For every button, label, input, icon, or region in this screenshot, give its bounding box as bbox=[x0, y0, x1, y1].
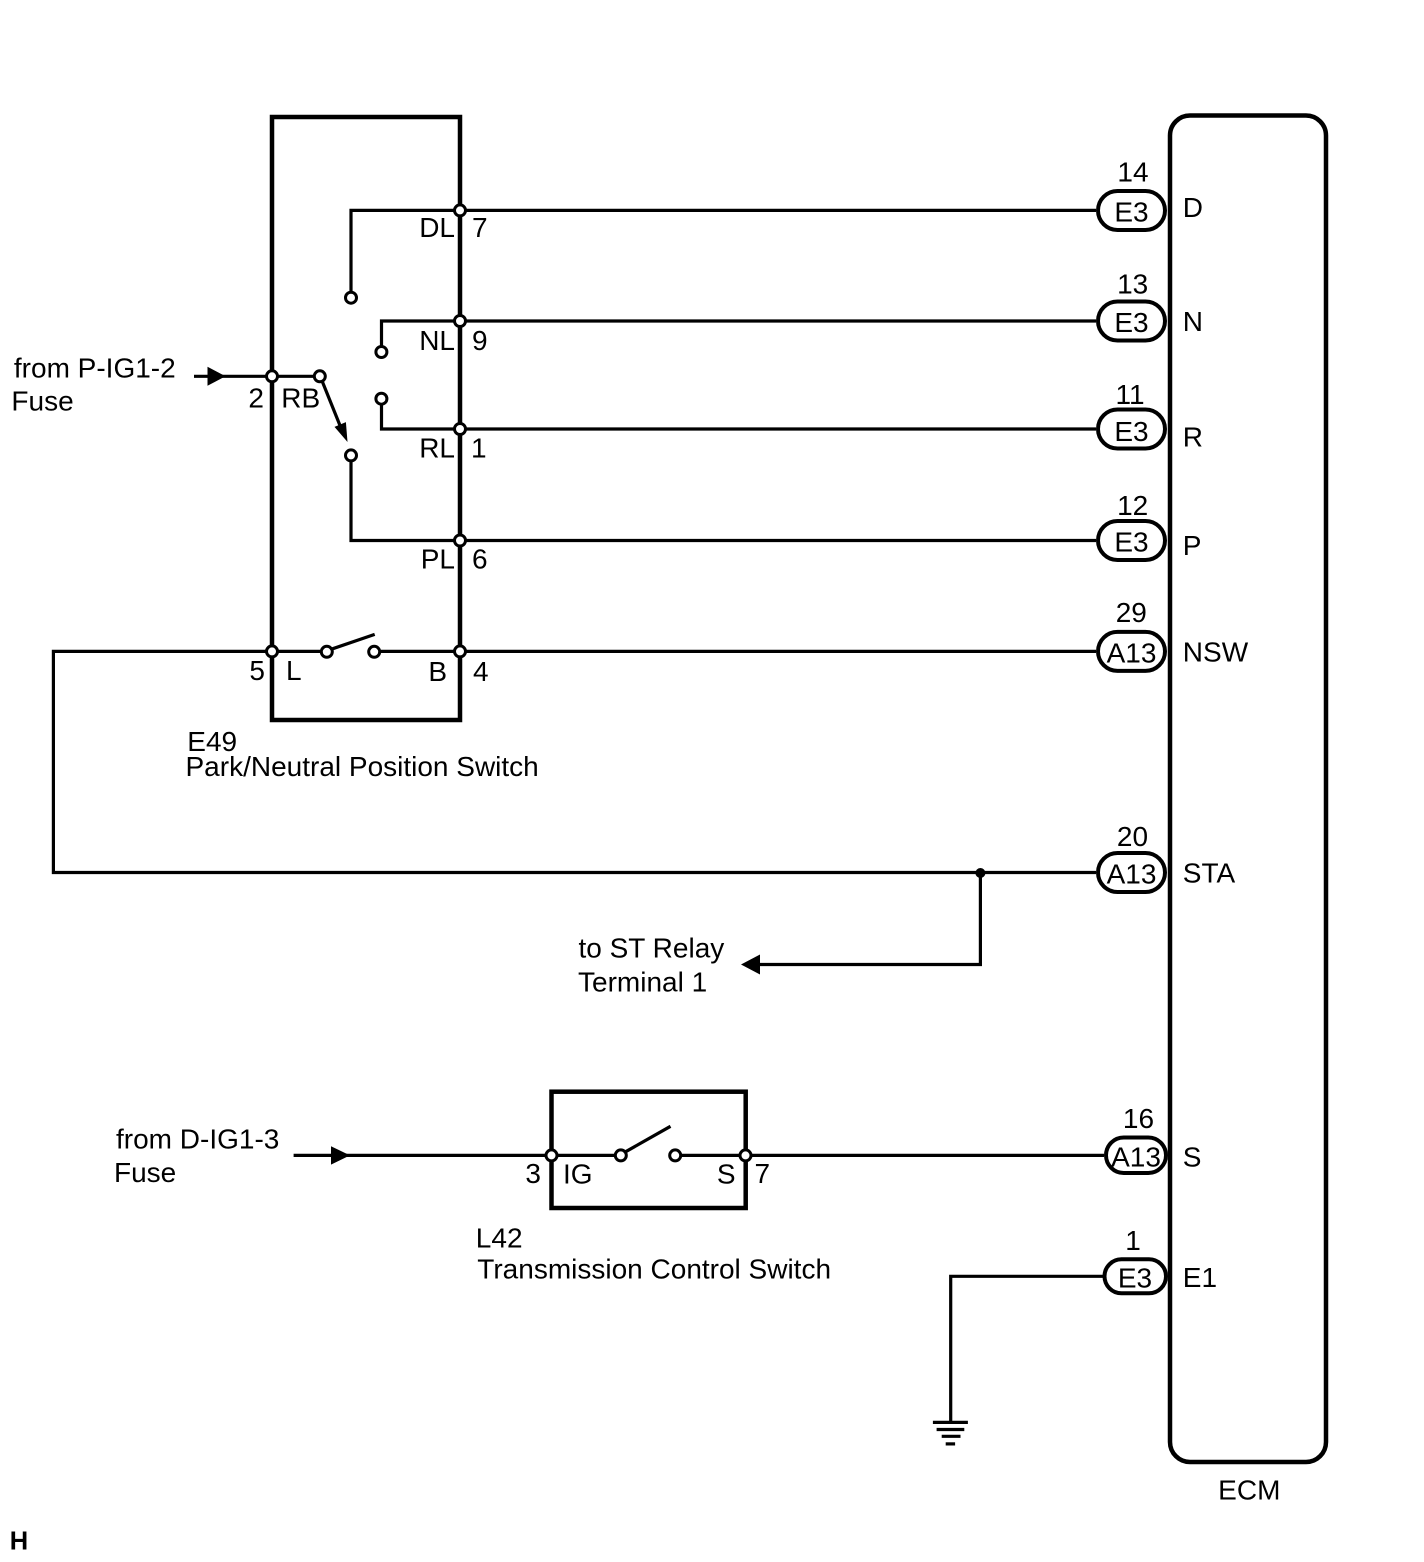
svg-text:Park/Neutral Position Switch: Park/Neutral Position Switch bbox=[186, 751, 539, 782]
wire NSW loop to STA bbox=[53, 651, 1096, 872]
svg-text:16: 16 bbox=[1123, 1103, 1154, 1134]
wire DL to pin 14 bbox=[351, 210, 1096, 291]
svg-text:IG: IG bbox=[563, 1159, 593, 1190]
connector E3 pin 1 bbox=[1105, 1259, 1167, 1293]
svg-text:6: 6 bbox=[472, 544, 488, 575]
svg-text:RL: RL bbox=[419, 433, 455, 464]
arrowhead to ST relay bbox=[741, 955, 760, 975]
svg-text:R: R bbox=[1183, 422, 1203, 453]
contact L bbox=[321, 646, 332, 657]
node DL-7 bbox=[455, 205, 466, 216]
svg-text:N: N bbox=[1183, 306, 1203, 337]
contact NL bbox=[376, 347, 387, 358]
svg-text:Transmission Control Switch: Transmission Control Switch bbox=[477, 1254, 831, 1285]
ECM box bbox=[1170, 116, 1326, 1463]
svg-text:7: 7 bbox=[472, 212, 488, 243]
contact RB common bbox=[314, 371, 325, 382]
svg-text:Terminal 1: Terminal 1 bbox=[578, 966, 707, 997]
ground bbox=[933, 1422, 968, 1444]
connector A13 pin 16 bbox=[1106, 1138, 1166, 1174]
svg-text:B: B bbox=[428, 656, 447, 687]
connector E3 pin 12 bbox=[1098, 521, 1165, 560]
svg-text:L42: L42 bbox=[476, 1223, 523, 1254]
switch L42 box bbox=[552, 1092, 746, 1208]
node terminal 3 bbox=[546, 1150, 557, 1161]
svg-text:E3: E3 bbox=[1114, 527, 1148, 558]
wire RL to pin 11 bbox=[382, 405, 1097, 429]
svg-text:5: 5 bbox=[249, 655, 265, 686]
svg-text:1: 1 bbox=[1125, 1225, 1141, 1256]
svg-text:13: 13 bbox=[1117, 269, 1148, 300]
svg-text:E3: E3 bbox=[1114, 307, 1148, 338]
svg-text:2: 2 bbox=[248, 382, 264, 413]
svg-text:11: 11 bbox=[1115, 379, 1144, 410]
wire to ST relay bbox=[759, 873, 980, 965]
svg-text:from D-IG1-3: from D-IG1-3 bbox=[116, 1124, 279, 1155]
node NL-9 bbox=[455, 316, 466, 327]
switch arm RB bbox=[323, 382, 342, 428]
wire PL to pin 12 bbox=[351, 462, 1096, 541]
svg-text:NL: NL bbox=[419, 325, 455, 356]
svg-text:1: 1 bbox=[471, 433, 487, 464]
node terminal 7 bbox=[740, 1150, 751, 1161]
wire E1 to ground bbox=[951, 1276, 1104, 1423]
arrowhead P-IG1-2 bbox=[208, 367, 226, 386]
contact PL bbox=[346, 450, 357, 461]
node terminal 2 bbox=[267, 371, 278, 382]
svg-text:A13: A13 bbox=[1107, 637, 1157, 668]
switch E49 box bbox=[272, 117, 460, 720]
node PL-6 bbox=[455, 535, 466, 546]
contact RL bbox=[376, 393, 387, 404]
switch arm L-B bbox=[331, 634, 375, 649]
svg-text:7: 7 bbox=[755, 1158, 771, 1189]
svg-text:E3: E3 bbox=[1114, 196, 1148, 227]
svg-text:E3: E3 bbox=[1118, 1262, 1152, 1293]
contact IG bbox=[615, 1150, 626, 1161]
svg-text:3: 3 bbox=[525, 1158, 541, 1189]
node terminal 4 bbox=[455, 646, 466, 657]
svg-text:from P-IG1-2: from P-IG1-2 bbox=[14, 352, 176, 383]
svg-text:Fuse: Fuse bbox=[11, 385, 73, 416]
svg-text:STA: STA bbox=[1183, 858, 1236, 889]
connector E3 pin 14 bbox=[1098, 191, 1165, 230]
wire from D-IG1-3 fuse bbox=[294, 1154, 615, 1157]
svg-text:Fuse: Fuse bbox=[114, 1157, 176, 1188]
connector E3 pin 11 bbox=[1098, 410, 1165, 449]
connector E3 pin 13 bbox=[1098, 302, 1165, 341]
svg-text:L: L bbox=[286, 655, 302, 686]
svg-text:12: 12 bbox=[1117, 490, 1148, 521]
svg-text:E1: E1 bbox=[1183, 1262, 1217, 1293]
svg-text:to ST Relay: to ST Relay bbox=[579, 933, 725, 964]
svg-text:4: 4 bbox=[473, 656, 489, 687]
junction STA branch bbox=[975, 868, 985, 878]
svg-text:9: 9 bbox=[472, 325, 488, 356]
svg-text:A13: A13 bbox=[1111, 1141, 1161, 1172]
switch arm IG-S bbox=[626, 1126, 671, 1152]
svg-text:E3: E3 bbox=[1114, 416, 1148, 447]
svg-text:PL: PL bbox=[421, 544, 455, 575]
svg-text:29: 29 bbox=[1116, 597, 1147, 628]
wire NL to pin 13 bbox=[382, 321, 1097, 346]
contact B bbox=[369, 646, 380, 657]
svg-text:P: P bbox=[1183, 530, 1202, 561]
svg-text:ECM: ECM bbox=[1218, 1475, 1280, 1506]
svg-text:DL: DL bbox=[419, 212, 455, 243]
svg-text:H: H bbox=[10, 1528, 28, 1556]
arrowhead RB arm bbox=[335, 422, 348, 442]
svg-text:20: 20 bbox=[1117, 821, 1148, 852]
wire S to pin 16 bbox=[682, 1154, 1105, 1157]
svg-text:D: D bbox=[1183, 192, 1203, 223]
svg-text:NSW: NSW bbox=[1183, 637, 1249, 668]
connector A13 pin 20 bbox=[1098, 853, 1165, 892]
wire from P-IG1-2 fuse bbox=[194, 375, 314, 378]
connector A13 pin 29 bbox=[1098, 632, 1165, 671]
arrowhead D-IG1-3 bbox=[331, 1146, 350, 1164]
svg-text:A13: A13 bbox=[1107, 859, 1157, 890]
wire NSW right bbox=[381, 650, 1096, 653]
contact S bbox=[670, 1150, 681, 1161]
svg-text:14: 14 bbox=[1117, 157, 1148, 188]
node terminal 5 bbox=[267, 646, 278, 657]
contact DL bbox=[346, 292, 357, 303]
svg-text:RB: RB bbox=[281, 382, 320, 413]
svg-text:S: S bbox=[717, 1159, 736, 1190]
node RL-1 bbox=[455, 424, 466, 435]
svg-text:S: S bbox=[1183, 1141, 1202, 1172]
